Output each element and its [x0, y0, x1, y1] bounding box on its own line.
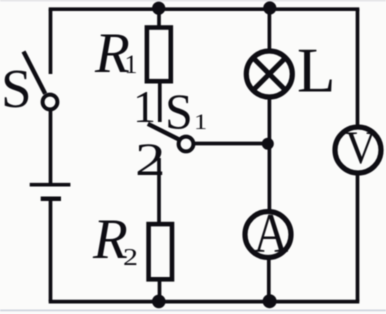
svg-text:A: A [254, 203, 289, 265]
svg-text:1: 1 [133, 81, 156, 132]
svg-text:1: 1 [194, 110, 207, 134]
svg-text:V: V [345, 121, 377, 173]
svg-text:2: 2 [135, 133, 166, 186]
svg-text:1: 1 [125, 50, 138, 79]
svg-text:L: L [297, 36, 335, 106]
svg-text:2: 2 [123, 244, 138, 271]
svg-text:S: S [165, 83, 193, 139]
svg-text:S: S [1, 58, 32, 119]
